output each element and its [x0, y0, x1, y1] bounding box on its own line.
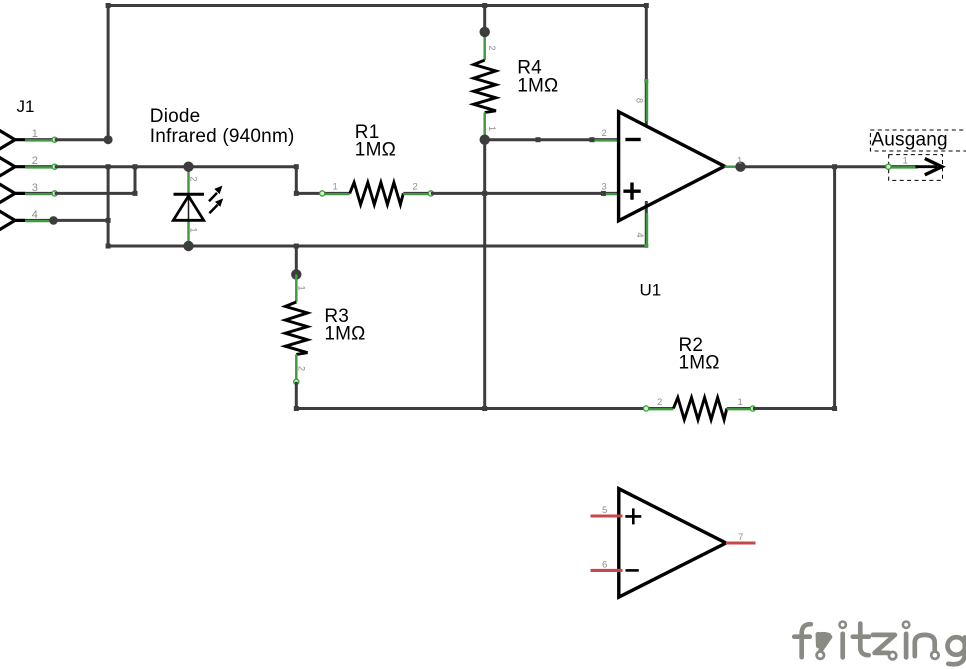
J1 pin 1 green pin	[25, 138, 54, 140]
node bend pin2 row	[106, 164, 111, 169]
wire left vertical from top to pin1	[107, 6, 110, 140]
diode LED emission arrow 1	[209, 193, 217, 201]
resistor R3 bottom green pin	[295, 354, 298, 381]
svg-text:2: 2	[602, 128, 607, 139]
Ausgang dashed label box	[870, 130, 966, 151]
node bend x485 on R1 row	[482, 191, 487, 196]
node bend top middle	[482, 3, 487, 8]
svg-text:3: 3	[32, 182, 38, 194]
node bend R3 top stub	[294, 244, 299, 249]
diode LED D1 bottom pin 1 green	[187, 220, 190, 246]
wire J1 pin1 to left vertical	[55, 138, 108, 141]
op-amp U2 pin 6 red	[591, 569, 623, 572]
svg-text:1: 1	[903, 155, 908, 166]
resistor R1 left green pin	[322, 192, 350, 194]
wire J1 pin4 to vertical	[49, 219, 108, 222]
op-amp U1 triangle	[619, 112, 725, 221]
resistor R1 right green pin	[403, 192, 431, 194]
J1 pin 4 green pin	[25, 219, 49, 221]
node junction R4 bottom	[480, 135, 490, 145]
connector J1 pin 4 chevron	[0, 211, 25, 231]
node bend U1 pin2 wire end	[590, 137, 595, 142]
resistor R2 zigzag	[673, 398, 726, 420]
logo ring i1 dot	[840, 622, 846, 628]
Ausgang green pin	[888, 165, 917, 167]
wire middle vertical from R4 bottom to bottom run	[483, 140, 486, 409]
node bend corner x296 y167	[294, 164, 299, 169]
svg-text:2: 2	[486, 45, 497, 50]
logo ring i2 dot	[903, 622, 909, 628]
op-amp U2 (unplaced) triangle	[619, 489, 726, 597]
op-amp U2 pin 7 red	[726, 542, 756, 545]
op-amp U1 pin4 green	[645, 213, 647, 246]
svg-text:J1: J1	[17, 97, 35, 116]
resistor R4 zigzag	[474, 60, 496, 112]
wire R3 bottom to run	[295, 382, 298, 409]
svg-text:4: 4	[634, 232, 645, 237]
node bend link x135 bottom	[133, 191, 138, 196]
wire R2 right to corner up	[753, 167, 835, 409]
svg-text:1: 1	[738, 397, 743, 408]
wire top horizontal net	[108, 4, 646, 7]
connector J1 pin 1 chevron	[0, 130, 25, 150]
resistor R2 left green pin	[646, 407, 673, 409]
wire U1 output to Ausgang	[745, 165, 888, 168]
wire bottom run left part	[296, 407, 646, 410]
wire row y167 to diode top and right corner	[108, 167, 322, 194]
logo letter g	[948, 637, 966, 655]
svg-text:7: 7	[738, 532, 743, 543]
U1 pin2 green	[592, 138, 619, 140]
logo letter z	[873, 635, 895, 653]
svg-text:1MΩ: 1MΩ	[679, 353, 720, 374]
fritzing logo	[794, 624, 965, 665]
svg-text:1MΩ: 1MΩ	[517, 75, 558, 96]
green endpoint square U1 pin4 bottom	[644, 244, 648, 248]
node junction J1 pin1 / left vertical	[104, 135, 113, 144]
J1 pin 3 green pin	[25, 192, 54, 194]
svg-text:6: 6	[602, 560, 607, 571]
node bend corner x835 y408	[832, 406, 837, 411]
svg-text:1: 1	[737, 156, 742, 167]
svg-text:Infrared (940nm): Infrared (940nm)	[150, 126, 295, 147]
diode LED D1 cathode bar	[174, 193, 205, 196]
svg-text:4: 4	[32, 209, 38, 221]
logo letter i1	[840, 634, 845, 658]
svg-text:1MΩ: 1MΩ	[355, 139, 396, 160]
op-amp U2 plus symbol	[625, 508, 641, 524]
logo ring n end	[931, 652, 938, 659]
U1 output green stub	[725, 165, 738, 168]
logo ring r	[817, 652, 824, 659]
node bend link x135 top	[133, 164, 138, 169]
node junction R3 top	[291, 269, 301, 279]
wire J1 pin3 to link	[55, 192, 135, 195]
logo letter i2	[904, 634, 909, 658]
svg-text:2: 2	[413, 182, 418, 193]
svg-text:Diode: Diode	[150, 106, 201, 127]
diode LED D1 top pin 2 green	[187, 167, 190, 195]
node bend x296 y408	[294, 406, 299, 411]
resistor R2 right green pin	[727, 407, 753, 409]
wire R1 to U1 pin3	[431, 192, 604, 195]
logo letter f	[802, 624, 811, 657]
svg-text:5: 5	[602, 505, 607, 516]
green endpoint square U1 pin8 top	[644, 79, 648, 83]
connector J1 pin 3 chevron	[0, 184, 25, 204]
svg-text:1: 1	[333, 182, 338, 193]
node junction U1 output	[735, 162, 745, 172]
svg-text:2: 2	[657, 397, 662, 408]
Ausgang dashed pin box	[889, 155, 943, 181]
node junction diode top	[183, 162, 193, 172]
resistor R4 top green pin	[483, 32, 486, 60]
connector J1 pin 2 chevron	[0, 157, 25, 177]
node bend mid wire x538	[536, 137, 541, 142]
diode LED emission arrow 2	[209, 205, 217, 214]
node bend pin4 row	[106, 218, 111, 223]
node bend corner x296 y193	[294, 191, 299, 196]
node bend top-right corner	[644, 3, 649, 8]
bendpoint squares	[106, 3, 838, 411]
node bend top-left corner	[106, 3, 111, 8]
diode LED D1 anode triangle	[173, 196, 203, 220]
op-amp U1 minus symbol	[625, 138, 640, 141]
op-amp U1 plus symbol	[623, 183, 640, 200]
wire R4 bottom to U1 pin2	[485, 138, 592, 141]
svg-text:U1: U1	[640, 281, 662, 300]
node junction R4 top	[480, 27, 490, 37]
resistor R3 stub from bottom-left run	[295, 246, 298, 274]
Ausgang arrow	[916, 165, 938, 168]
svg-text:1MΩ: 1MΩ	[324, 323, 365, 344]
svg-text:1: 1	[486, 126, 497, 131]
node junction at J1 pin 4	[49, 216, 58, 225]
U1 pin3 green	[603, 192, 618, 194]
node bend output T x835	[832, 164, 837, 169]
svg-text:Ausgang: Ausgang	[871, 129, 947, 150]
logo ring z end	[889, 652, 896, 659]
node junction diode bottom	[183, 241, 193, 251]
svg-text:2: 2	[296, 366, 307, 371]
resistor R1 zigzag	[350, 182, 404, 204]
diode LED D1 internal pin line	[188, 194, 190, 220]
svg-text:2: 2	[187, 176, 198, 181]
svg-text:1: 1	[32, 128, 38, 140]
op-amp U2 minus symbol	[626, 569, 639, 572]
wire left vertical 2 down to bottom-left run	[108, 167, 646, 246]
resistor R3 zigzag	[285, 302, 307, 354]
logo letter n	[915, 635, 935, 656]
node bend corner x108 y246	[106, 244, 111, 249]
wire stub from top wire to R4 pin2	[483, 6, 486, 32]
wire J1 pin2 to node	[55, 165, 108, 168]
resistor R3 top green pin	[295, 274, 298, 302]
svg-text:8: 8	[634, 98, 645, 103]
logo letter t	[860, 624, 868, 656]
svg-text:2: 2	[32, 155, 38, 167]
svg-text:1: 1	[187, 227, 198, 232]
wire link pin3 up to pin2 row	[134, 167, 137, 194]
op-amp U2 pin 5 red	[591, 514, 623, 517]
logo letter r	[816, 634, 821, 646]
op-amp U1 pin8 green	[645, 81, 647, 121]
node bend U1 pin3 wire end	[601, 191, 606, 196]
wire top-right vertical down to U1 pin8	[645, 6, 648, 82]
node bend x485 y408	[482, 406, 487, 411]
svg-text:1: 1	[296, 285, 307, 290]
resistor R4 bottom green pin	[483, 113, 486, 140]
svg-text:3: 3	[602, 181, 607, 192]
J1 pin 2 green pin	[25, 165, 54, 167]
